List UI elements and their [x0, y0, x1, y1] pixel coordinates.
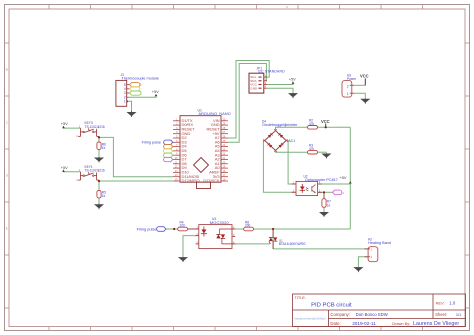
- svg-text:1/1: 1/1: [456, 312, 461, 317]
- net flag magenta at U2 pin3: [333, 190, 342, 195]
- wire JP1 pin1 loop to arduino A7: [228, 61, 269, 139]
- wire KEY1 +5V to switch pin1: [64, 170, 81, 172]
- svg-text:+5V: +5V: [340, 175, 347, 180]
- wire R6 to ground: [98, 150, 100, 157]
- svg-text:D: D: [6, 174, 8, 178]
- junction triac node: [272, 228, 274, 230]
- wire U2 pin3 junction down to R7: [323, 192, 325, 198]
- wire bridge right vertex to U2 pin1: [286, 141, 296, 185]
- svg-text:Firing pulse: Firing pulse: [137, 227, 157, 231]
- svg-text:+5V: +5V: [289, 77, 296, 82]
- wire H3 pin1 to ground: [354, 93, 365, 98]
- svg-text:Sheet:: Sheet:: [435, 312, 447, 317]
- wire J3 pin2 to +5V: [129, 95, 157, 97]
- ground at R3: [323, 154, 331, 159]
- svg-text:TS-1102-5216: TS-1102-5216: [85, 169, 105, 173]
- IC U1 ARDUINO_NANO: [173, 108, 231, 188]
- wire J3 pin1 to ground: [127, 101, 132, 111]
- ground symbols (dark arrows): [95, 93, 362, 272]
- net flag yellow at arduino D5: [164, 149, 173, 153]
- wire R5 to ground: [98, 198, 100, 204]
- +5V flag at JP1: [289, 77, 296, 84]
- net flag magenta at arduino D7: [164, 157, 173, 161]
- net flag oval yellow on J3 pin4: [130, 87, 140, 91]
- svg-text:Laurens De Vlieger: Laurens De Vlieger: [413, 321, 459, 327]
- switch KEY3 TS-1102-5216: [76, 121, 105, 138]
- svg-text:TITLE:: TITLE:: [295, 296, 306, 300]
- ground at U3: [179, 257, 187, 262]
- ground at R6: [95, 157, 103, 163]
- net flag Firing pulse at arduino D3: [142, 140, 173, 145]
- U3 led: [201, 227, 207, 237]
- svg-text:VCC: VCC: [321, 119, 330, 124]
- +5V flag at KEY3: [61, 121, 68, 128]
- svg-text:100: 100: [180, 224, 186, 228]
- arduino diamond logo: [194, 158, 209, 173]
- arduino right pin names: [203, 118, 220, 183]
- wire bridge bottom to R3: [276, 150, 308, 152]
- svg-text:Company:: Company:: [330, 312, 350, 317]
- net flag oval orange on J3 pin5: [130, 83, 142, 96]
- header JP1 I2C STANDARD: [249, 66, 285, 93]
- svg-text:Heating Band: Heating Band: [368, 241, 391, 245]
- svg-text:Power: Power: [347, 77, 357, 81]
- wire U3 pin4 to triac gate: [232, 243, 270, 245]
- wire bridge left vertex down to U2 pin2: [263, 141, 296, 193]
- svg-text:E: E: [6, 227, 8, 231]
- wire firing pulse flag to R4: [166, 228, 178, 230]
- resistor R8 200 (horizontal): [244, 220, 254, 230]
- U3 triac symbol: [216, 229, 232, 244]
- svg-text:+5V: +5V: [152, 89, 159, 94]
- wire H3 pin2 to VCC: [354, 84, 365, 86]
- svg-text:Drawn By:: Drawn By:: [392, 321, 410, 326]
- U2 pins: [292, 184, 323, 192]
- VCC net flag at R2: [321, 119, 330, 127]
- svg-text:1k: 1k: [327, 203, 331, 207]
- svg-text:Optocoupler PC817: Optocoupler PC817: [305, 178, 338, 182]
- wire U2 pin3 to net flag: [318, 191, 333, 193]
- arduino usb connector: [197, 182, 211, 188]
- svg-text:GND: GND: [250, 86, 258, 90]
- svg-text:Thermocouple module: Thermocouple module: [121, 77, 158, 81]
- wire bridge top to R2: [276, 127, 308, 130]
- svg-text:B: B: [6, 68, 8, 72]
- wire triac bottom to H2 pin1: [273, 248, 368, 250]
- svg-text:Diodebruggelijkrichter: Diodebruggelijkrichter: [262, 123, 298, 127]
- U2 transistor: [312, 185, 316, 193]
- svg-text:VCC: VCC: [360, 74, 369, 79]
- svg-text:+5V: +5V: [61, 121, 68, 126]
- svg-text:1.0: 1.0: [449, 301, 456, 306]
- bridge diodes: [268, 133, 284, 148]
- wire KEY3 junction to R6: [98, 137, 100, 142]
- +5V flag at J3: [152, 89, 159, 96]
- svg-text:MOC3020: MOC3020: [210, 220, 230, 225]
- switch KEY1 TS-1102-5216: [76, 165, 105, 182]
- arduino right pin stubs: [221, 121, 228, 181]
- junction J3 pin1 node: [126, 100, 128, 102]
- wire KEY1 junction to R5: [98, 181, 100, 190]
- junction U2 pin3-R7 node: [323, 191, 325, 193]
- wire R2 to VCC junction and right: [318, 126, 351, 128]
- arduino left pin stubs: [173, 121, 180, 181]
- svg-text:PID PCB circuit: PID PCB circuit: [311, 302, 352, 308]
- wire H2 pin2 to ground: [358, 257, 368, 267]
- VCC flag at H3: [360, 74, 369, 86]
- svg-text:1k: 1k: [102, 146, 106, 150]
- resistor R6 1k (vertical): [97, 142, 106, 150]
- svg-text:TS-1102-5216: TS-1102-5216: [85, 125, 105, 129]
- ground at R7: [320, 212, 328, 217]
- wire KEY3 junction to arduino D11: [99, 137, 173, 176]
- svg-text:BTA16-600CWRG: BTA16-600CWRG: [279, 242, 306, 246]
- arduino right pin numbers: [223, 118, 226, 181]
- svg-text:1k: 1k: [102, 194, 106, 198]
- wire U3 pin6 to R8: [232, 228, 244, 230]
- svg-text:2: 2: [347, 84, 349, 88]
- bridge vertex marks: [263, 129, 287, 152]
- wire JP1 pin4 to ground: [267, 88, 293, 93]
- svg-text:AC1: AC1: [289, 139, 296, 143]
- wire U2 pin4 to +5V rail: [318, 183, 351, 185]
- junction firing pulse-R4 node: [173, 228, 175, 230]
- resistor R3 47k (horizontal): [308, 144, 318, 154]
- connector H2 Heating Band: [365, 237, 391, 261]
- optocoupler U2 PC817: [292, 174, 338, 195]
- wire triac vertical: [272, 229, 274, 249]
- arduino left pin numbers: [175, 118, 178, 181]
- wire R7 to ground: [323, 207, 325, 212]
- ground at JP1: [289, 93, 297, 98]
- wire KEY3 right side to junction: [98, 136, 100, 137]
- svg-text:200: 200: [245, 224, 251, 228]
- net flag oval green on J3 pin3: [130, 91, 142, 95]
- svg-text:C: C: [6, 121, 8, 125]
- bridge rectifier D4 Diodebruggelijkrichter: [262, 119, 298, 151]
- wire KEY3 +5V to switch pin1: [64, 126, 81, 128]
- svg-text:1: 1: [124, 100, 126, 104]
- wire JP1 pin2 loop to arduino A6: [228, 64, 267, 143]
- connector H3 Power: [342, 74, 357, 98]
- wire U3 pin2 to ground: [183, 236, 199, 257]
- U3 pins: [196, 229, 236, 244]
- net flag green at arduino D6: [164, 153, 173, 157]
- arduino left pin names: [182, 118, 200, 183]
- wire VCC vertical rail: [349, 127, 351, 229]
- net flag Firing pulse (bottom): [137, 227, 166, 232]
- wire R4 to U3 pin1: [188, 228, 199, 230]
- svg-text:REV:: REV:: [436, 302, 445, 306]
- svg-text:ARDUINO_NANO: ARDUINO_NANO: [199, 112, 231, 116]
- U2 led: [300, 184, 309, 193]
- svg-text:Don Bosco SDW: Don Bosco SDW: [356, 312, 389, 317]
- title block: [293, 294, 466, 327]
- wire KEY1 right side to junction: [98, 179, 100, 182]
- svg-text:1: 1: [347, 92, 349, 96]
- resistor R5 1k (vertical): [97, 190, 106, 198]
- junction KEY1-R5 node: [98, 180, 100, 182]
- ground at R5: [95, 204, 103, 210]
- opto-triac U3 MOC3020: [196, 217, 236, 248]
- junction VCC node: [325, 126, 327, 128]
- ground at H3: [362, 99, 370, 104]
- wire JP1 pin3 to +5V: [267, 82, 293, 85]
- wire R8 to triac junction to VCC rail: [251, 228, 350, 230]
- svg-text:Firing pulse: Firing pulse: [142, 141, 162, 145]
- resistor R7 1k (vertical): [322, 199, 331, 208]
- svg-text:47k: 47k: [309, 147, 315, 151]
- junction KEY3-R6 node: [98, 136, 100, 138]
- +5V flag at U2 pin4: [340, 175, 352, 183]
- svg-text:I2C STANDARD: I2C STANDARD: [258, 70, 285, 74]
- resistor R4 100 (horizontal): [178, 220, 188, 230]
- connector J3 Thermocouple module: [116, 73, 159, 106]
- ground at H2: [355, 267, 363, 272]
- svg-text:+5V: +5V: [61, 165, 68, 170]
- wire R3 to ground: [318, 151, 327, 153]
- ground at J3: [128, 111, 136, 117]
- triac Q1 BTA16-600CWRG: [269, 229, 306, 249]
- svg-text:47k: 47k: [309, 122, 315, 126]
- resistor R2 47k (horizontal): [308, 119, 318, 129]
- svg-text:Date:: Date:: [330, 321, 340, 326]
- +5V flag at KEY1: [61, 165, 68, 172]
- svg-text:easyeda.com-schematic-DeVliege: easyeda.com-schematic-DeVlieger: [295, 318, 326, 321]
- svg-text:2019-02-11: 2019-02-11: [352, 321, 376, 326]
- net flag orange at arduino D4: [164, 144, 173, 148]
- wire KEY1 junction to arduino D12: [99, 180, 173, 182]
